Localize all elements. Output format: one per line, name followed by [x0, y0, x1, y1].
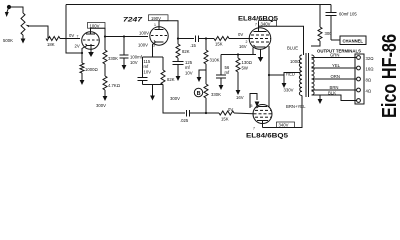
svg-text:15K: 15K	[215, 42, 223, 47]
node screen branch	[268, 74, 270, 76]
wire .025 to bottom junction	[190, 112, 220, 114]
svg-text:0V: 0V	[228, 107, 233, 112]
resistor 1000ohm	[80, 63, 84, 73]
wire secondary common	[312, 95, 357, 101]
wire top ground bus	[66, 4, 331, 6]
svg-text:130Ω: 130Ω	[242, 60, 252, 65]
wire cap branch	[142, 57, 144, 77]
wire 82K to 125mf	[177, 58, 179, 61]
wire divider top	[205, 39, 207, 51]
wire 330K to 4.7K	[104, 64, 106, 76]
wire V1b cathode down	[152, 47, 154, 57]
svg-text:BRN+YEL: BRN+YEL	[286, 104, 306, 109]
svg-text:YEL: YEL	[332, 63, 341, 68]
svg-text:7: 7	[253, 127, 255, 131]
svg-text:10V: 10V	[185, 71, 193, 76]
svg-text:B: B	[197, 91, 201, 97]
svg-text:300V: 300V	[170, 96, 180, 101]
wire direct coupling to V1b grid	[105, 36, 148, 38]
svg-text:82K: 82K	[167, 77, 175, 82]
balloon node B	[194, 88, 202, 96]
terminal 8ohm	[357, 77, 361, 81]
label 340V top EL84 plate boxed	[259, 21, 277, 27]
svg-text:ORN: ORN	[331, 74, 340, 79]
capacitor 125mf 10V	[173, 62, 184, 70]
svg-text:100Ω: 100Ω	[290, 59, 300, 64]
wire resistor branch	[162, 57, 164, 70]
svg-text:4.7KΩ: 4.7KΩ	[108, 83, 120, 88]
svg-text:mf: mf	[225, 70, 231, 75]
ground arrow 1000ohm	[80, 73, 85, 85]
svg-text:1000Ω: 1000Ω	[85, 67, 98, 72]
triode V1a 1/2 7247	[82, 29, 100, 53]
svg-text:340V: 340V	[279, 123, 289, 128]
wire jack to pot	[9, 7, 23, 13]
svg-text:BRN: BRN	[330, 85, 339, 90]
wire cathode to 1000ohm	[81, 53, 83, 63]
svg-text:BLUE: BLUE	[287, 46, 298, 51]
supply arrow 300V mid	[176, 69, 181, 81]
transformer T1 secondary	[312, 55, 315, 95]
svg-text:0V: 0V	[238, 32, 243, 37]
wire bus drop to V1a cathode	[66, 5, 82, 54]
wire 15K to bottom EL84 grid	[234, 112, 253, 115]
svg-text:1: 1	[154, 23, 156, 27]
terminal common	[357, 99, 361, 103]
terminal 16ohm	[357, 66, 361, 70]
label 340V bottom EL84 plate boxed	[277, 122, 295, 128]
wire screen branch to B+	[269, 74, 284, 76]
wire tap 16ohm	[312, 67, 357, 69]
terminal 32ohm	[357, 56, 361, 60]
wire RED tap join	[284, 73, 300, 76]
node divider bottom junction	[205, 112, 207, 114]
resistor 300ohm	[318, 27, 322, 41]
svg-text:2: 2	[246, 40, 248, 44]
wire tap 8ohm	[312, 78, 357, 80]
resistor 82K plate	[176, 44, 180, 58]
svg-text:0V: 0V	[69, 33, 74, 38]
wire divider bottom	[205, 98, 207, 113]
wire cap to divider junction	[199, 38, 215, 40]
svg-text:10V: 10V	[130, 60, 138, 65]
svg-text:8Ω: 8Ω	[366, 78, 372, 83]
terminal 4ohm	[357, 88, 361, 92]
wire wiper to 18K	[33, 26, 48, 39]
capacitor 60mf 105V	[326, 13, 337, 41]
potentiometer 500K	[21, 13, 33, 35]
wire cathode bottom rail	[143, 84, 164, 86]
ground arrow 100mf	[122, 61, 127, 70]
svg-text:16Ω: 16Ω	[366, 67, 374, 72]
svg-text:5: 5	[251, 104, 253, 108]
wire plate node to .15 cap	[178, 38, 194, 40]
svg-text:10V: 10V	[144, 70, 152, 75]
svg-text:330K: 330K	[108, 56, 118, 61]
capacitor .025 coupling bottom	[187, 110, 190, 117]
wire B+ column	[319, 5, 321, 28]
ground arrow secondary common	[318, 95, 323, 104]
input jack J1	[5, 5, 11, 17]
svg-text:4Ω: 4Ω	[366, 89, 372, 94]
svg-text:82K: 82K	[182, 49, 190, 54]
svg-text:mf: mf	[144, 64, 150, 69]
svg-text:330K: 330K	[211, 92, 221, 97]
svg-text:60mf 105: 60mf 105	[339, 12, 357, 17]
ground arrow divider tap	[197, 70, 206, 82]
svg-text:16V: 16V	[236, 95, 244, 100]
svg-text:7: 7	[77, 35, 79, 39]
svg-text:100mf: 100mf	[130, 55, 143, 60]
svg-text:BLK: BLK	[328, 91, 336, 96]
transformer T1 primary	[299, 55, 302, 96]
wire cathode rail	[221, 54, 256, 56]
svg-text:Eico HF-86: Eico HF-86	[378, 34, 400, 118]
ground arrow V1a shield	[88, 44, 94, 57]
wire top EL84 cathode lead	[252, 47, 255, 55]
transformer T1 core	[306, 53, 309, 97]
svg-text:16V: 16V	[239, 44, 247, 49]
svg-text:3: 3	[153, 44, 155, 48]
node divider top	[205, 37, 207, 39]
capacitor 56mf	[216, 75, 226, 81]
ground arrow 56mf	[219, 81, 224, 90]
resistor 18K	[46, 37, 60, 41]
svg-text:5W: 5W	[242, 66, 248, 71]
wire tap 4ohm	[312, 89, 357, 91]
svg-text:mf: mf	[185, 65, 191, 70]
wire B+ column bottom	[311, 41, 320, 46]
ground arrow 130ohm	[236, 84, 241, 95]
svg-text:500K: 500K	[3, 38, 13, 43]
svg-text:2V: 2V	[75, 44, 80, 49]
wire down to 100mf	[123, 37, 125, 55]
wire V1b plate to 82K column	[159, 21, 168, 30]
ground arrow top EL84 cathode pin	[258, 49, 264, 62]
label 190V V1b plate boxed	[149, 15, 169, 21]
resistor 15K top	[214, 37, 229, 41]
node 100mf branch	[123, 35, 125, 37]
svg-text:7: 7	[255, 23, 257, 27]
svg-text:7247: 7247	[123, 17, 143, 24]
svg-text:.025: .025	[180, 118, 189, 123]
resistor 15K bottom	[219, 111, 234, 115]
wire to channel box	[331, 39, 340, 41]
supply arrow B+ 330V	[282, 75, 287, 88]
capacitor .15 coupling top	[196, 36, 199, 43]
wire 56mf branch	[220, 55, 222, 75]
svg-text:32Ω: 32Ω	[366, 56, 374, 61]
svg-text:RED: RED	[286, 72, 295, 77]
ground arrow pot	[21, 35, 26, 44]
pentode V2 EL84 top	[249, 22, 271, 50]
wire screen line	[268, 46, 270, 107]
triode V1b 1/2 7247 phase splitter	[150, 22, 168, 47]
box TO OTHER CHANNEL	[340, 36, 366, 45]
wire divider middle	[205, 64, 207, 84]
svg-text:15K: 15K	[221, 117, 229, 122]
svg-text:300V: 300V	[96, 103, 106, 108]
node plate branch	[177, 37, 179, 39]
wire 18K to V1a grid	[60, 38, 80, 40]
svg-text:EL84/6BQ5: EL84/6BQ5	[246, 133, 289, 140]
node cathode rail left	[237, 53, 239, 55]
wire filter cap column	[330, 5, 332, 13]
svg-text:100V: 100V	[90, 23, 100, 28]
wire cathode split top rail	[143, 56, 164, 58]
resistor 4.7K	[103, 76, 107, 90]
wire tap 32ohm	[312, 57, 357, 59]
capacitor 100mf 10V	[120, 55, 129, 62]
svg-text:340V: 340V	[261, 21, 271, 26]
wire V1a plate to load column	[91, 28, 106, 50]
svg-text:330V: 330V	[284, 88, 294, 93]
node V1a cathode	[81, 52, 83, 54]
svg-text:100V: 100V	[138, 43, 148, 48]
label 100V V1a plate boxed	[88, 23, 106, 29]
svg-text:.15: .15	[190, 43, 197, 48]
resistor 330K	[103, 50, 107, 64]
resistor 82K cathode	[161, 70, 165, 85]
svg-text:190V: 190V	[151, 16, 161, 21]
svg-text:100V: 100V	[139, 31, 149, 36]
supply arrow 300V left	[103, 90, 108, 101]
svg-text:OUTPUT TERMINALS: OUTPUT TERMINALS	[317, 49, 361, 54]
ground arrow cathode rail	[150, 85, 155, 101]
terminal strip outline	[355, 54, 364, 104]
node V1a plate junction	[104, 35, 106, 37]
resistor 310K	[204, 50, 208, 64]
wire bottom EL84 plate to primary bottom	[263, 96, 303, 128]
resistor 330K lower	[204, 84, 208, 98]
wire top EL84 plate to primary top	[259, 26, 304, 55]
svg-text:310K: 310K	[210, 58, 220, 63]
svg-text:CHANNEL: CHANNEL	[343, 39, 364, 44]
pentode V3 EL84 bottom	[253, 105, 272, 128]
capacitor 115mf 10V cathode	[138, 78, 148, 85]
wire cathode to .025 cap	[163, 85, 185, 114]
hook arrow bottom EL84 cathode	[250, 94, 259, 109]
wire 15K to top EL84 grid	[229, 38, 250, 40]
svg-text:18K: 18K	[47, 42, 55, 47]
resistor 130ohm 5W	[236, 55, 240, 85]
